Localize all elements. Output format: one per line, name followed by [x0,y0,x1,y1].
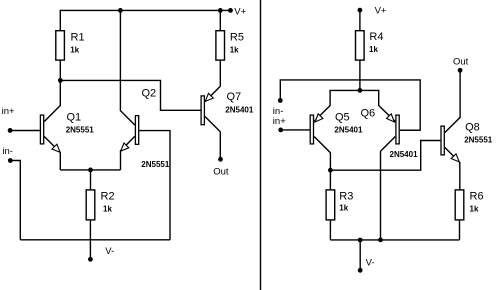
wire Q5 base from in+ [281,129,310,131]
wire bottom rail (left) [20,239,170,241]
svg-text:1k: 1k [470,204,479,213]
svg-text:2N5551: 2N5551 [464,136,493,145]
wire Q5 collector [314,137,330,171]
arrow Q6 emitter (PNP) [387,114,395,122]
arrow Q1 emitter [52,144,60,152]
svg-text:V+: V+ [234,7,246,18]
wire R4 top lead [359,10,361,30]
node V+ terminal (left) [228,8,233,13]
resistor R2 [86,190,95,220]
wire Q6 collector [381,137,396,240]
svg-text:V-: V- [366,257,375,268]
node junction Q6 collector/rail [378,238,383,243]
node Out terminal (left) [218,157,223,162]
svg-text:Out: Out [453,57,469,68]
wire Q2 emitter [121,136,135,170]
wire Q2 base to bottom rail [139,131,170,240]
resistor R3 [326,190,335,220]
node in+ terminal (right) [278,127,283,132]
node junction top rail / R5 [218,8,223,13]
resistor R1 [56,31,65,60]
wire R6 bottom lead [459,221,461,240]
svg-text:2N5551: 2N5551 [141,160,170,169]
divider line between circuits [260,0,262,290]
wire R3 top lead [329,170,331,189]
arrow Q5 emitter (PNP) [315,114,323,122]
svg-text:Q5: Q5 [335,112,350,124]
node junction V- rail [358,238,363,243]
svg-text:1k: 1k [230,46,239,55]
svg-text:Q7: Q7 [227,91,242,103]
node junction top rail / Q2 collector [118,8,123,13]
wire bottom rail (right) [330,239,459,241]
node V- terminal (left) [88,257,93,262]
wire top rail V+ (left circuit) [60,10,230,30]
svg-text:2N5551: 2N5551 [66,126,95,135]
svg-text:2N5401: 2N5401 [225,105,254,114]
wire Q2 collector from top rail [120,10,134,125]
node junction emitters/R2 [88,168,93,173]
svg-text:R5: R5 [230,32,244,44]
wire V- stub (right) [359,240,361,270]
node in+ terminal (left) [8,128,13,133]
wire Q5 emitter [314,90,360,121]
wire Q7 collector to Out [205,117,220,158]
wire R5 top lead [219,10,221,30]
svg-text:R3: R3 [339,191,353,203]
svg-text:Out: Out [213,166,229,177]
svg-text:2N5401: 2N5401 [390,150,419,159]
wire R4 bottom lead [359,60,361,90]
node V+ terminal (right) [358,8,363,13]
wire Q8 collector to Out [445,70,460,132]
arrow Q2 emitter [121,143,129,151]
wire R1 bottom lead [59,60,61,80]
svg-text:1k: 1k [339,204,348,213]
svg-text:in-: in- [2,146,13,157]
wire in- to Q6 base [280,80,420,130]
resistor R5 [216,31,225,60]
svg-text:V-: V- [105,246,114,257]
node in- terminal (left) [8,158,13,163]
node Out terminal (right) [458,68,463,73]
svg-text:Q2: Q2 [142,87,157,99]
wire to Q7 base [60,80,200,110]
resistor R4 [356,31,365,60]
wire R3 bottom lead [329,221,331,240]
wire Q1 emitter [44,137,60,170]
svg-text:R4: R4 [369,31,383,43]
arrow Q8 emitter [451,154,459,162]
svg-text:R1: R1 [71,32,85,44]
arrow Q7 emitter (PNP) [205,93,213,101]
transistor Q8 bar [441,126,444,155]
svg-text:V+: V+ [375,6,387,17]
wire R2 top lead [90,170,92,189]
node junction Q5 collector/R3 [328,168,333,173]
transistor Q7 bar [201,96,204,125]
wire Q7 emitter diagonal [205,86,220,101]
wire Q5 collector to Q8 base [330,141,440,171]
wire emitter join (left pair) [60,169,120,171]
node V- terminal (right) [358,268,363,273]
node junction R4/emitters [358,88,363,93]
wire Q8 emitter [445,148,460,190]
resistor R6 [455,190,464,220]
node in- terminal (right) [278,98,283,103]
transistor Q5 bar [310,115,313,144]
wire R2 bottom lead / V- stub [89,221,91,259]
svg-text:in+: in+ [273,116,286,127]
wire Q1 base from in+ [10,130,40,132]
transistor Q2 bar [135,116,138,145]
svg-text:in+: in+ [2,106,15,117]
svg-text:R2: R2 [101,191,115,203]
svg-text:1k: 1k [70,46,79,55]
transistor Q1 bar [40,115,43,144]
wire R5 bottom lead [219,60,221,86]
svg-text:Q6: Q6 [361,108,376,120]
svg-text:Q1: Q1 [67,112,82,124]
svg-text:1k: 1k [103,204,112,213]
node junction R1/Q1 collector [58,78,63,83]
wire Q6 base [400,129,420,131]
svg-text:2N5401: 2N5401 [334,126,363,135]
svg-text:1k: 1k [369,45,378,54]
transistor Q6 bar [396,115,399,144]
svg-text:R6: R6 [470,190,484,202]
svg-text:Q8: Q8 [465,122,480,134]
wire in- to bottom rail [10,161,20,240]
wire Q6 emitter [360,90,395,121]
wire Q1 collector [44,80,60,121]
